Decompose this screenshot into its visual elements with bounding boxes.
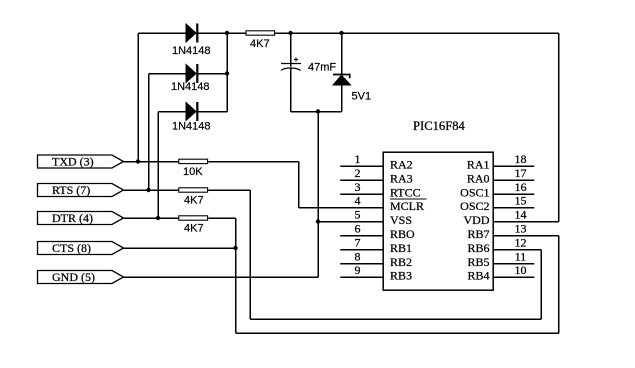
wire vertical A TXD to diode1 (137, 33, 139, 162)
svg-text:RTS (7): RTS (7) (52, 183, 90, 197)
pin 16 stub (493, 193, 534, 195)
node top rail / diode bus (225, 31, 229, 35)
svg-text:RA0: RA0 (467, 172, 490, 186)
connector flag TXD (3) (38, 155, 124, 169)
svg-text:16: 16 (515, 180, 527, 194)
pin numbers left (355, 152, 361, 277)
wire zener top (341, 33, 343, 74)
wire diode3 cathode (198, 111, 227, 113)
diode D1 1N4148 (172, 24, 211, 58)
connector flag DTR (4) (38, 211, 124, 225)
svg-text:47mF: 47mF (308, 62, 336, 74)
node CTS junction (233, 246, 237, 250)
node top rail / zener (339, 31, 343, 35)
resistor R3 4K7 (RTS) (179, 188, 208, 207)
wire VDD vertical from top rail (558, 33, 560, 222)
svg-text:RB7: RB7 (467, 227, 489, 241)
svg-text:5: 5 (355, 208, 361, 222)
junction dots (136, 31, 344, 250)
wire RTS net bottom horizontal (250, 318, 541, 320)
resistor R4 4K7 (DTR) (179, 216, 208, 235)
wire RTS net vertical up to RB6 (540, 250, 542, 320)
svg-text:RA3: RA3 (390, 172, 413, 186)
wire DTR/CTS net vertical down (235, 218, 237, 333)
svg-text:VSS: VSS (390, 213, 412, 227)
wire VSS pin 5 (318, 221, 383, 223)
pin 10 stub (493, 276, 534, 278)
wire zener bottom (341, 85, 343, 112)
svg-text:PIC16F84: PIC16F84 (413, 119, 465, 133)
pin 11 stub (493, 263, 534, 265)
wire corner down to MCLR row (298, 162, 300, 208)
svg-text:6: 6 (355, 222, 361, 236)
wire cathode bus vertical (226, 33, 228, 112)
svg-text:RB2: RB2 (390, 255, 412, 269)
diode D3 1N4148 (172, 102, 211, 133)
node top rail / capacitor (288, 31, 292, 35)
svg-text:12: 12 (515, 236, 527, 250)
wire top rail left (138, 32, 186, 34)
wire ground rail under cap and zener (291, 111, 342, 113)
wire VSS/GND vertical (317, 112, 319, 278)
pin 8 stub (340, 263, 383, 265)
svg-text:MCLR: MCLR (390, 199, 424, 213)
wire DTR/CTS net vertical up to RB7 (558, 236, 560, 334)
wire RB6 pin 12 (493, 249, 541, 251)
svg-text:4K7: 4K7 (184, 195, 204, 207)
connector flag CTS (8) (38, 241, 124, 255)
node VSS junction (316, 219, 320, 223)
connector flag RTS (7) (38, 183, 124, 197)
wire DTR/CTS net bottom horizontal (236, 332, 559, 334)
svg-text:1N4148: 1N4148 (171, 81, 210, 93)
wire diode2 anode (149, 73, 187, 75)
svg-text:18: 18 (515, 152, 527, 166)
pin 1 stub (340, 165, 383, 167)
svg-text:4: 4 (355, 194, 361, 208)
wire GND horizontal (124, 276, 319, 278)
svg-text:TXD (3): TXD (3) (52, 155, 94, 169)
svg-text:RB1: RB1 (390, 241, 412, 255)
svg-text:4K7: 4K7 (250, 38, 270, 50)
wire into MCLR pin 4 (299, 207, 384, 209)
wire DTR to 4K7 (124, 217, 179, 219)
svg-text:RTCC: RTCC (390, 186, 421, 200)
svg-text:DTR (4): DTR (4) (52, 211, 93, 225)
svg-text:RB5: RB5 (467, 255, 489, 269)
wire RTS to 4K7 (124, 189, 179, 191)
svg-text:1N4148: 1N4148 (172, 121, 211, 133)
resistor R2 10K (TXD to MCLR) (179, 159, 208, 178)
svg-text:RA2: RA2 (390, 158, 413, 172)
wire capacitor bottom (290, 68, 292, 112)
wire capacitor top (290, 33, 292, 67)
svg-text:3: 3 (355, 180, 361, 194)
pin 2 stub (340, 179, 383, 181)
node TXD / diode1 (136, 159, 140, 163)
wire diode1 cathode to node (198, 32, 246, 34)
zener diode Z1 5V1 (333, 75, 371, 103)
svg-text:1N4148: 1N4148 (172, 45, 211, 57)
diode D2 1N4148 (171, 64, 210, 93)
svg-text:5V1: 5V1 (352, 91, 372, 103)
pin labels right (460, 158, 490, 283)
svg-text:RBO: RBO (390, 227, 415, 241)
svg-text:VDD: VDD (464, 213, 490, 227)
svg-text:7: 7 (355, 236, 361, 250)
pin 3 stub (340, 193, 383, 195)
node ground rail tap (316, 109, 320, 113)
wire VDD pin 14 (493, 221, 559, 223)
svg-text:11: 11 (515, 250, 527, 264)
svg-text:OSC2: OSC2 (460, 199, 489, 213)
node diode2 cathode junction (225, 71, 229, 75)
svg-text:17: 17 (515, 166, 527, 180)
pin 18 stub (493, 165, 534, 167)
node DTR / diode3 (156, 216, 160, 220)
node RTS / diode2 (146, 188, 150, 192)
svg-text:GND (5): GND (5) (52, 270, 95, 284)
pin 6 stub (340, 235, 383, 237)
wire top rail 4K7 to corner (275, 32, 559, 34)
wire diode2 cathode (198, 73, 227, 75)
svg-text:4K7: 4K7 (184, 223, 204, 235)
svg-text:RA1: RA1 (467, 158, 490, 172)
svg-text:13: 13 (515, 222, 527, 236)
pin 7 stub (340, 249, 383, 251)
svg-text:15: 15 (515, 194, 527, 208)
op-amp U1 PIC16F84 chip body (383, 119, 493, 290)
wire diode3 anode (158, 111, 186, 113)
svg-text:1: 1 (355, 152, 361, 166)
wire 4K7 to corner (208, 189, 250, 191)
svg-text:CTS (8): CTS (8) (52, 241, 91, 255)
wire TXD to 10K (124, 161, 179, 163)
svg-text:OSC1: OSC1 (460, 186, 489, 200)
svg-text:14: 14 (515, 208, 527, 222)
svg-text:RB4: RB4 (467, 269, 489, 283)
wire 4K7 to corner (208, 217, 236, 219)
capacitor C1 47mF (281, 58, 336, 74)
pin 17 stub (493, 179, 534, 181)
wire CTS horizontal (124, 247, 236, 249)
svg-text:2: 2 (355, 166, 361, 180)
pin 15 stub (493, 207, 534, 209)
svg-text:8: 8 (355, 250, 361, 264)
wire vertical B RTS to diode2 (148, 74, 150, 191)
pin 9 stub (340, 276, 383, 278)
svg-text:RB3: RB3 (390, 269, 412, 283)
svg-text:10: 10 (515, 263, 527, 277)
wire vertical C DTR to diode3 (157, 112, 159, 219)
pin numbers right (515, 152, 527, 277)
wire RB7 pin 13 (493, 235, 559, 237)
svg-text:10K: 10K (183, 166, 203, 178)
svg-text:9: 9 (355, 263, 361, 277)
svg-text:RB6: RB6 (467, 241, 489, 255)
connector flag GND (5) (38, 270, 124, 284)
pin labels left (390, 158, 427, 283)
wire RTS net vertical down (249, 190, 251, 319)
resistor R1 4K7 (top) (246, 31, 275, 50)
wire 10K to corner (208, 161, 299, 163)
